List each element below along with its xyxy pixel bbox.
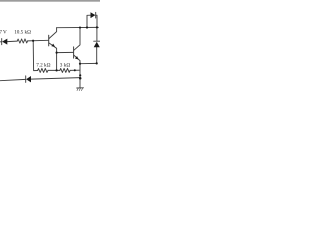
svg-text:3 kΩ: 3 kΩ: [60, 63, 71, 69]
svg-text:10.5 kΩ: 10.5 kΩ: [14, 30, 31, 36]
svg-text:7.2 kΩ: 7.2 kΩ: [36, 63, 50, 69]
svg-text:7 V: 7 V: [0, 30, 7, 36]
